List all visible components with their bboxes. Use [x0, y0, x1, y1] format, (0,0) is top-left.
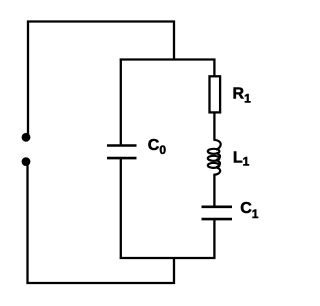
wire: R1 to L1 lead: [213, 112, 215, 140]
wire: C0 branch lower lead: [120, 158, 122, 259]
wire: L1 to C1 lead: [213, 174, 215, 207]
resistor R1: [210, 76, 221, 112]
wire: outer bottom loop from terminal 2 down, across, up to inner bottom rail: [28, 165, 175, 283]
wire: inner top rail: [120, 58, 216, 60]
wire: inner bottom rail: [120, 257, 216, 259]
capacitor C1: [202, 207, 233, 219]
node terminal dot (bottom input): [22, 157, 31, 166]
svg-text:C1: C1: [240, 200, 259, 221]
svg-text:L1: L1: [233, 150, 250, 169]
capacitor C0: [107, 146, 137, 159]
node terminal dot (top input): [22, 133, 31, 142]
inductor L1: [208, 140, 221, 175]
svg-text:C0: C0: [148, 137, 167, 157]
wire: C0 branch upper lead: [120, 59, 122, 146]
wire: outer top loop from terminal 1 up, across, down to inner top rail: [28, 22, 174, 136]
wire: C1 lower lead: [213, 219, 215, 259]
svg-text:R1: R1: [233, 85, 252, 105]
wire: series branch upper lead: [213, 59, 215, 77]
